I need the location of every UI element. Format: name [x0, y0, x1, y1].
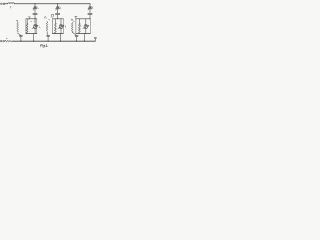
wire drop stage3: [83, 34, 85, 42]
wire node line stage3: [76, 18, 91, 20]
wire tank left edge stage3: [75, 19, 77, 34]
inductor L3: [79, 19, 81, 34]
caption Fig. 1.: [40, 44, 48, 47]
label z (left of CV3): [79, 24, 82, 27]
resistor R0 (in bottom rail): [4, 40, 12, 42]
junction dot: [60, 41, 61, 42]
capacitor Cg2: [47, 36, 50, 41]
output terminal T5: [95, 37, 97, 39]
capacitor Cg3: [75, 36, 78, 41]
node dot stage3: [89, 18, 90, 19]
capacitor C1 (series): [33, 13, 37, 18]
node dot stage1: [35, 18, 36, 19]
label n (left of R2): [45, 17, 46, 19]
wire tank right edge stage3: [89, 19, 91, 34]
wire tank bottom stage3: [76, 33, 90, 35]
input terminal T1: [1, 3, 3, 5]
label 2 (under coil): [9, 7, 12, 8]
wire right riser: [94, 39, 96, 41]
junction dot: [76, 41, 77, 42]
wire: [5, 3, 8, 5]
wire top rail: [14, 3, 90, 5]
label 7 (stage1 node): [28, 17, 30, 20]
junction dot: [48, 41, 49, 42]
label 17 (stage2 node): [51, 15, 54, 18]
output terminal T4: [3, 40, 5, 42]
node B (junction dot stage2): [57, 3, 58, 4]
label 4 (right of CT1): [37, 8, 40, 9]
junction dot: [20, 41, 21, 42]
output terminal T3: [0, 40, 2, 42]
wire bottom rail: [12, 40, 95, 42]
junction dot: [84, 41, 85, 42]
label r1 (top of R1): [17, 21, 18, 22]
label r2 (top of R2): [49, 19, 50, 21]
trimmer capacitor CT1: [33, 4, 37, 13]
label c1 (under node line stage1): [31, 20, 35, 23]
variable capacitor CV2: [58, 19, 64, 34]
wire tank right edge stage2: [62, 19, 64, 34]
node A (junction dot stage1): [34, 3, 35, 4]
label c5 (right of CV2): [64, 26, 67, 27]
wire tank bottom stage2: [52, 33, 63, 35]
label n3 (left of R3): [71, 19, 72, 21]
label 4'' (right of CT3): [91, 7, 94, 8]
capacitor Cg1: [19, 36, 22, 41]
label 4' (right of CT2): [59, 8, 62, 9]
resistor R1 (grid leak stage1): [17, 22, 21, 35]
trimmer capacitor CT2: [56, 4, 60, 13]
label r0 (above R0): [5, 37, 8, 40]
wire node line stage2: [52, 18, 63, 20]
node dot stage2: [57, 18, 58, 19]
wire tank left edge stage2: [51, 19, 53, 34]
resistor R2 (grid leak stage2): [46, 21, 48, 35]
wire node line stage1: [26, 18, 37, 20]
label r3 (top of R3): [72, 20, 75, 22]
capacitor C3 (series): [88, 13, 92, 18]
inductor L2: [55, 19, 57, 34]
input terminal T2: [3, 3, 5, 5]
label 17' (stage3 node): [75, 16, 77, 19]
wire tank left edge stage1: [25, 19, 27, 34]
variable capacitor CV1: [32, 19, 38, 34]
wire tank bottom stage1: [26, 33, 37, 35]
junction dot: [33, 41, 34, 42]
wire drop stage1: [33, 34, 35, 42]
capacitor C2 (series): [56, 13, 60, 18]
label c4 (right of CV1): [39, 27, 41, 28]
inductor L1: [26, 19, 28, 34]
wire tank right edge stage1: [36, 19, 38, 34]
resistor R3 (grid leak stage3): [71, 22, 76, 35]
inductor L0 (antenna coil in top rail): [8, 2, 15, 5]
trimmer capacitor CT3: [88, 4, 92, 13]
variable capacitor CV3: [83, 19, 89, 34]
wire drop stage2: [59, 34, 61, 42]
